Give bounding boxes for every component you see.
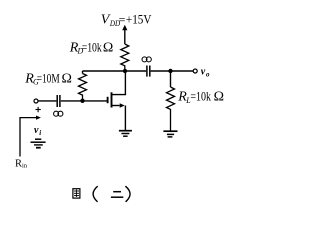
node VDD label — [101, 12, 152, 29]
svg-text:R: R — [15, 158, 22, 169]
label vo — [201, 67, 210, 79]
capacitor C2 (output, infinite) — [147, 66, 150, 77]
terminal vi circle (input) — [34, 99, 38, 103]
wire: cap to output terminal — [151, 70, 194, 72]
label infinity (input cap) — [54, 111, 63, 116]
caption glyph "tu" (figure) drawn box — [73, 189, 80, 198]
resistor RD — [121, 44, 129, 71]
caption ( — [93, 186, 98, 202]
caption glyph "er" (two) drawn bars — [111, 192, 123, 198]
resistor RL — [167, 87, 175, 131]
svg-text:Ω: Ω — [103, 40, 113, 55]
label RL=10k ohm — [177, 90, 224, 105]
svg-text:=10k: =10k — [82, 41, 102, 54]
resistor RG (drain-gate feedback) — [79, 71, 87, 101]
transistor Q1 channel bar — [111, 92, 113, 107]
ground (RL) — [163, 131, 177, 137]
svg-text:=: = — [119, 12, 126, 26]
svg-text:in: in — [22, 163, 28, 170]
label Rin — [15, 158, 28, 169]
label vi — [34, 125, 41, 137]
capacitor C1 (input, infinite) — [57, 95, 60, 107]
ground (vi reference) — [31, 139, 46, 148]
label RG=10M ohm — [24, 71, 72, 86]
power supply arrow VDD — [122, 25, 127, 44]
wire: input terminal to cap — [38, 100, 56, 102]
label infinity (output cap) — [142, 57, 151, 62]
label RD=10k ohm — [69, 40, 114, 55]
transistor Q1 drain leg — [112, 71, 126, 95]
svg-text:Ω: Ω — [62, 71, 72, 86]
Rin measurement arrow — [20, 116, 41, 157]
caption ) — [125, 186, 130, 202]
node: output junction dot — [168, 69, 172, 73]
svg-text:Ω: Ω — [214, 90, 224, 105]
svg-text:=10k: =10k — [190, 91, 211, 104]
node: gate junction dot — [80, 99, 84, 103]
wire: output node down to RL — [170, 71, 172, 87]
wire: cap to gate — [61, 100, 107, 102]
svg-text:o: o — [206, 70, 210, 78]
svg-text:+15V: +15V — [126, 12, 152, 27]
svg-text:=10M: =10M — [37, 72, 60, 86]
transistor Q1 (NMOS) gate bar — [107, 97, 109, 103]
wire: drain node horizontal (RG corner to output cap) — [83, 70, 147, 72]
svg-text:i: i — [39, 129, 41, 137]
transistor Q1 source leg with arrow — [112, 103, 126, 131]
node: drain junction dot — [123, 69, 127, 73]
plus sign of vi — [36, 107, 41, 112]
terminal vo circle — [193, 69, 197, 73]
ground (source) — [119, 131, 132, 137]
